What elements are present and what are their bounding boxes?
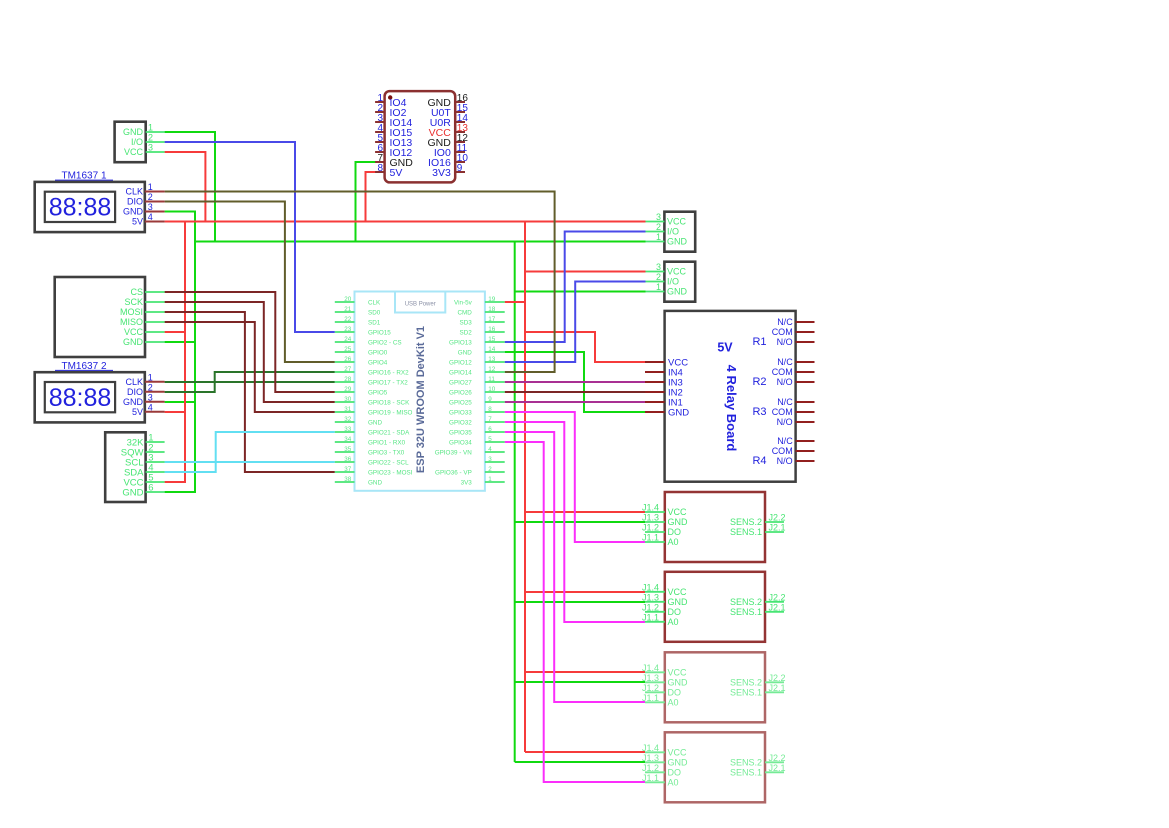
wire ESP GPIO34 pin5 to SENS4.A0 — [505, 442, 645, 782]
svg-text:MISO: MISO — [120, 317, 143, 327]
svg-text:1: 1 — [148, 123, 153, 133]
svg-text:J1.3: J1.3 — [642, 753, 659, 763]
wire TM1637_1.DIO to ESP GPIO4 pin26 — [165, 202, 335, 363]
svg-text:7: 7 — [488, 416, 492, 423]
svg-text:A0: A0 — [668, 778, 679, 788]
wire 5V U1 pin8 to bus — [366, 172, 376, 222]
svg-text:I/O: I/O — [131, 137, 143, 147]
svg-text:COM: COM — [772, 446, 793, 456]
svg-text:9: 9 — [457, 163, 463, 174]
svg-text:VCC: VCC — [668, 587, 688, 597]
svg-text:SENS.2: SENS.2 — [730, 517, 762, 527]
svg-text:5: 5 — [488, 436, 492, 443]
svg-text:J1.1: J1.1 — [642, 693, 659, 703]
svg-text:8: 8 — [377, 163, 383, 174]
svg-text:16: 16 — [488, 326, 496, 333]
svg-text:SENS.2: SENS.2 — [730, 678, 762, 688]
svg-text:J1.4: J1.4 — [642, 743, 659, 753]
svg-text:33: 33 — [344, 426, 352, 433]
svg-text:R4: R4 — [752, 455, 766, 467]
svg-text:CMD: CMD — [457, 309, 472, 316]
svg-text:13: 13 — [488, 356, 496, 363]
svg-text:GPIO32: GPIO32 — [449, 419, 472, 426]
svg-text:CLK: CLK — [368, 299, 381, 306]
wire GND vertical rail x195 — [194, 211, 196, 493]
svg-text:J1.4: J1.4 — [642, 503, 659, 513]
svg-text:GND: GND — [668, 758, 689, 768]
svg-text:18: 18 — [488, 306, 496, 313]
svg-text:VCC: VCC — [668, 748, 688, 758]
wire 5V ESP Vin-5v pin19 — [505, 301, 525, 303]
svg-text:J2.2: J2.2 — [769, 753, 786, 763]
svg-text:GND: GND — [122, 487, 143, 498]
svg-text:SENS.2: SENS.2 — [730, 597, 762, 607]
svg-text:19: 19 — [488, 296, 496, 303]
relay board K1 — [645, 311, 815, 482]
wire ESP GPIO13 pin15 to J1.I/O — [505, 232, 646, 343]
wire GND branch to SENS4.GND — [515, 761, 645, 763]
svg-text:24: 24 — [344, 336, 352, 343]
wire GND SPI.GND to rail — [165, 341, 196, 343]
wire 5V J3.VCC down to bus — [165, 152, 206, 222]
wire GND horizontal bus y241 to J1.GND — [194, 241, 646, 243]
svg-text:12: 12 — [488, 366, 496, 373]
svg-text:27: 27 — [344, 366, 352, 373]
svg-text:R2: R2 — [752, 376, 766, 388]
svg-text:3: 3 — [148, 202, 153, 212]
wire 5V branch to SENS2.VCC — [525, 591, 645, 593]
svg-text:5V: 5V — [717, 340, 733, 354]
svg-text:GPIO16 - RX2: GPIO16 - RX2 — [368, 369, 409, 376]
wire GND branch to SENS3.GND — [515, 681, 645, 683]
wire ESP GPIO27 pin11 to relay IN3 — [505, 381, 645, 383]
svg-text:J1.1: J1.1 — [642, 533, 659, 543]
svg-text:MOSI: MOSI — [120, 307, 143, 317]
svg-text:2: 2 — [656, 222, 661, 232]
svg-text:A0: A0 — [668, 698, 679, 708]
wire SPI.CS to ESP GPIO5 pin29 — [165, 292, 335, 392]
svg-text:3V3: 3V3 — [461, 479, 473, 486]
svg-text:GND: GND — [368, 419, 382, 426]
svg-text:DO: DO — [668, 768, 682, 778]
svg-text:GPIO22 - SCL: GPIO22 - SCL — [368, 459, 409, 466]
svg-text:DIO: DIO — [127, 387, 143, 397]
svg-text:DIO: DIO — [127, 197, 143, 207]
svg-text:GPIO23 - MOSI: GPIO23 - MOSI — [368, 469, 413, 476]
wire 5V SPI.VCC to rail — [165, 331, 186, 333]
svg-text:N/O: N/O — [777, 337, 793, 347]
svg-text:VCC: VCC — [668, 507, 688, 517]
svg-text:R1: R1 — [752, 336, 766, 348]
wire 5V bus TM1637_1.5V to J1.VCC — [165, 221, 646, 223]
svg-text:29: 29 — [344, 386, 352, 393]
wire GND bus TM1637_1.GND to rail — [165, 211, 196, 213]
svg-text:N/O: N/O — [777, 456, 793, 466]
wire SPI.MISO to ESP GPIO19-MISO pin31 — [165, 322, 335, 412]
svg-text:4: 4 — [488, 446, 492, 453]
svg-text:21: 21 — [344, 306, 352, 313]
svg-text:4 Relay Board: 4 Relay Board — [724, 365, 739, 452]
display TM1637 1 — [35, 171, 165, 232]
svg-text:23: 23 — [344, 326, 352, 333]
svg-text:SENS.1: SENS.1 — [730, 527, 762, 537]
svg-text:J2.1: J2.1 — [769, 763, 786, 773]
sensor board SENS4 — [642, 732, 786, 802]
wire ESP GPIO33 pin8 to SENS1.A0 — [505, 412, 645, 542]
svg-text:N/C: N/C — [777, 357, 793, 367]
svg-text:GND: GND — [123, 397, 144, 407]
svg-text:3: 3 — [656, 262, 661, 272]
svg-text:J2.1: J2.1 — [769, 683, 786, 693]
wire 5V TM1637_2.5V to rail — [165, 411, 186, 413]
svg-text:1: 1 — [148, 182, 153, 192]
svg-text:6: 6 — [488, 426, 492, 433]
svg-text:VCC: VCC — [124, 147, 144, 157]
wire GND branch to J2.GND — [515, 291, 646, 293]
svg-text:11: 11 — [488, 376, 495, 383]
wire ESP GPIO12 pin13 to J2.I/O — [505, 282, 646, 363]
svg-text:GPIO26: GPIO26 — [449, 389, 472, 396]
svg-text:GPIO2 - CS: GPIO2 - CS — [368, 339, 402, 346]
connector J1 — [646, 212, 696, 252]
svg-text:N/C: N/C — [777, 436, 793, 446]
chip U1 — [375, 91, 468, 182]
svg-text:SENS.1: SENS.1 — [730, 768, 762, 778]
module RTC U3 — [105, 432, 164, 502]
wire GND branch to SENS2.GND — [515, 601, 645, 603]
wire GND ESP.GND pin14 to relay GND — [505, 352, 645, 412]
svg-text:3: 3 — [656, 212, 661, 222]
svg-text:GPIO39 - VN: GPIO39 - VN — [435, 449, 473, 456]
svg-text:USB Power: USB Power — [405, 301, 436, 307]
svg-text:J2.1: J2.1 — [769, 523, 786, 533]
svg-text:3V3: 3V3 — [432, 167, 451, 179]
svg-text:3: 3 — [148, 143, 153, 153]
svg-text:J1.2: J1.2 — [642, 763, 659, 773]
wire RTC.SCL to ESP GPIO22-SCL pin36 — [165, 461, 335, 463]
svg-text:GPIO34: GPIO34 — [449, 439, 472, 446]
svg-text:31: 31 — [344, 406, 352, 413]
svg-text:2: 2 — [488, 466, 492, 473]
wire RTC.SDA to ESP GPIO21-SDA pin33 — [165, 432, 335, 472]
connector J3 — [115, 122, 165, 163]
svg-text:88:88: 88:88 — [49, 194, 112, 222]
svg-text:GND: GND — [368, 479, 382, 486]
svg-text:VCC: VCC — [668, 668, 688, 678]
svg-text:GND: GND — [123, 127, 144, 137]
mcu ESP 32U WROOM DevKit V1 — [335, 292, 505, 491]
sensor board SENS1 — [642, 492, 786, 562]
svg-text:GPIO36 - VP: GPIO36 - VP — [435, 469, 472, 476]
svg-text:GND: GND — [668, 678, 689, 688]
svg-text:3: 3 — [488, 456, 492, 463]
svg-text:COM: COM — [772, 407, 793, 417]
svg-text:20: 20 — [344, 296, 352, 303]
svg-text:GND: GND — [668, 517, 689, 527]
svg-text:GPIO5: GPIO5 — [368, 389, 388, 396]
svg-text:SD1: SD1 — [368, 319, 381, 326]
wire 5V vertical rail x525 to sensors — [524, 222, 526, 753]
svg-text:A0: A0 — [668, 537, 679, 547]
svg-text:J1.3: J1.3 — [642, 673, 659, 683]
svg-text:GPIO12: GPIO12 — [449, 359, 472, 366]
svg-text:30: 30 — [344, 396, 352, 403]
svg-text:SENS.1: SENS.1 — [730, 688, 762, 698]
svg-text:GPIO21 - SDA: GPIO21 - SDA — [368, 429, 410, 436]
svg-text:J1.3: J1.3 — [642, 592, 659, 602]
wire GND U1 pin7 to bus — [356, 162, 376, 242]
svg-text:1: 1 — [488, 476, 492, 483]
wire TM1637_2.CLK to ESP GPIO17-TX2 pin28 — [165, 381, 335, 383]
wire SPI.MOSI to ESP GPIO23-MOSI pin37 — [165, 312, 335, 472]
svg-text:SCK: SCK — [124, 297, 143, 307]
wire ESP GPIO26 pin10 to relay IN2 — [505, 391, 645, 393]
svg-text:J2.2: J2.2 — [769, 673, 786, 683]
svg-text:CLK: CLK — [125, 377, 143, 387]
svg-text:GPIO25: GPIO25 — [449, 399, 472, 406]
wire ESP GPIO32 pin7 to SENS2.A0 — [505, 422, 645, 622]
svg-text:J1.1: J1.1 — [642, 612, 659, 622]
svg-text:26: 26 — [344, 356, 352, 363]
svg-text:4: 4 — [148, 212, 153, 222]
svg-text:2: 2 — [148, 133, 153, 143]
svg-text:3: 3 — [148, 392, 153, 402]
wire 5V RTC.VCC to rail — [165, 481, 186, 483]
svg-text:VCC: VCC — [124, 327, 144, 337]
svg-text:COM: COM — [772, 367, 793, 377]
svg-text:VCC: VCC — [667, 267, 687, 277]
svg-text:J1.2: J1.2 — [642, 523, 659, 533]
svg-text:22: 22 — [344, 316, 352, 323]
svg-text:GPIO27: GPIO27 — [449, 379, 472, 386]
wire 5V vertical rail x185 — [184, 221, 186, 483]
svg-text:37: 37 — [344, 466, 352, 473]
svg-text:2: 2 — [148, 382, 153, 392]
svg-text:2: 2 — [656, 272, 661, 282]
svg-text:GPIO14: GPIO14 — [449, 369, 472, 376]
svg-text:I/O: I/O — [667, 227, 679, 237]
wire ESP GPIO35 pin6 to SENS3.A0 — [505, 432, 645, 702]
svg-text:GPIO1 - RX0: GPIO1 - RX0 — [368, 439, 406, 446]
wire GND vertical rail x514.7 to sensors — [514, 242, 516, 763]
svg-text:J1.3: J1.3 — [642, 513, 659, 523]
svg-text:35: 35 — [344, 446, 352, 453]
svg-text:R3: R3 — [752, 406, 766, 418]
display TM1637 2 — [35, 361, 165, 423]
svg-text:CS: CS — [130, 287, 143, 297]
svg-text:SD2: SD2 — [460, 329, 473, 336]
svg-text:GND: GND — [667, 237, 688, 247]
svg-text:1: 1 — [656, 282, 661, 292]
svg-text:5V: 5V — [132, 217, 143, 227]
wire 5V branch to relay VCC — [525, 332, 645, 362]
wire GND RTC.GND to rail — [165, 491, 196, 493]
svg-text:J2.1: J2.1 — [769, 602, 786, 612]
svg-text:9: 9 — [488, 396, 492, 403]
svg-text:GPIO0: GPIO0 — [368, 349, 388, 356]
svg-text:32: 32 — [344, 416, 352, 423]
svg-text:GPIO18 - SCK: GPIO18 - SCK — [368, 399, 410, 406]
sensor board SENS2 — [642, 572, 786, 642]
svg-text:GPIO3 - TX0: GPIO3 - TX0 — [368, 449, 405, 456]
svg-text:DO: DO — [668, 688, 682, 698]
svg-text:GPIO4: GPIO4 — [368, 359, 388, 366]
svg-text:J2.2: J2.2 — [769, 592, 786, 602]
svg-text:14: 14 — [488, 346, 496, 353]
svg-text:J1.4: J1.4 — [642, 663, 659, 673]
svg-text:10: 10 — [488, 386, 496, 393]
svg-text:34: 34 — [344, 436, 352, 443]
svg-text:8: 8 — [488, 406, 492, 413]
svg-text:GND: GND — [123, 337, 144, 347]
wire 5V branch to SENS4.VCC — [525, 751, 645, 753]
svg-text:SENS.2: SENS.2 — [730, 758, 762, 768]
svg-text:5V: 5V — [132, 407, 143, 417]
svg-text:J2.2: J2.2 — [769, 513, 786, 523]
svg-text:GPIO17 - TX2: GPIO17 - TX2 — [368, 379, 408, 386]
svg-text:2: 2 — [148, 192, 153, 202]
svg-text:GND: GND — [123, 207, 144, 217]
svg-text:4: 4 — [148, 402, 153, 412]
svg-text:SD3: SD3 — [460, 319, 473, 326]
svg-text:5V: 5V — [390, 167, 403, 179]
svg-text:ESP 32U WROOM DevKit V1: ESP 32U WROOM DevKit V1 — [415, 326, 427, 473]
wire GND TM1637_2.GND to rail — [165, 401, 196, 403]
wire GND branch to SENS1.GND — [515, 521, 645, 523]
svg-text:GND: GND — [668, 407, 689, 418]
svg-text:GPIO13: GPIO13 — [449, 339, 472, 346]
svg-text:28: 28 — [344, 376, 352, 383]
svg-text:17: 17 — [488, 316, 496, 323]
wire GND J3.GND down to bus — [165, 132, 215, 242]
svg-text:GND: GND — [667, 287, 688, 297]
svg-text:DO: DO — [668, 607, 682, 617]
svg-text:N/O: N/O — [777, 417, 793, 427]
svg-text:GND: GND — [668, 597, 689, 607]
svg-text:GPIO33: GPIO33 — [449, 409, 472, 416]
svg-text:A0: A0 — [668, 617, 679, 627]
svg-text:GND: GND — [458, 349, 472, 356]
svg-text:DO: DO — [668, 527, 682, 537]
svg-text:GPIO19 - MISO: GPIO19 - MISO — [368, 409, 413, 416]
svg-text:VCC: VCC — [667, 217, 687, 227]
svg-text:J1.4: J1.4 — [642, 582, 659, 592]
wire 5V branch to SENS3.VCC — [525, 671, 645, 673]
svg-text:38: 38 — [344, 476, 352, 483]
svg-text:N/O: N/O — [777, 377, 793, 387]
svg-text:J1.1: J1.1 — [642, 773, 659, 783]
svg-text:15: 15 — [488, 336, 496, 343]
wire J3.I/O to ESP GPIO15 pin23 — [165, 142, 335, 332]
svg-text:SENS.1: SENS.1 — [730, 607, 762, 617]
svg-text:36: 36 — [344, 456, 352, 463]
svg-text:88:88: 88:88 — [49, 384, 112, 412]
wire TM1637_1.CLK to ESP GPIO14 pin12 — [165, 192, 555, 373]
svg-text:1: 1 — [656, 232, 661, 242]
svg-text:GPIO15: GPIO15 — [368, 329, 391, 336]
sensor board SENS3 — [642, 652, 786, 722]
svg-text:CLK: CLK — [125, 187, 143, 197]
svg-text:25: 25 — [344, 346, 352, 353]
svg-text:6: 6 — [148, 483, 153, 494]
wire SPI.SCK to ESP GPIO18-SCK pin30 — [165, 302, 335, 402]
svg-text:1: 1 — [148, 372, 153, 382]
svg-text:J1.2: J1.2 — [642, 683, 659, 693]
svg-text:SD0: SD0 — [368, 309, 381, 316]
module SPI SD card U2 — [55, 277, 165, 357]
svg-text:N/C: N/C — [777, 397, 793, 407]
svg-text:I/O: I/O — [667, 277, 679, 287]
wire 5V branch to J2.VCC — [525, 271, 646, 273]
wire TM1637_2.DIO to ESP GPIO16-RX2 pin27 — [165, 372, 335, 392]
svg-text:N/C: N/C — [777, 317, 793, 327]
wire ESP GPIO25 pin9 to relay IN1 — [505, 401, 645, 403]
connector J2 — [646, 262, 696, 302]
svg-text:J1.2: J1.2 — [642, 602, 659, 612]
wire 5V branch to SENS1.VCC — [525, 511, 645, 513]
svg-text:Vin-5v: Vin-5v — [454, 299, 473, 306]
svg-text:GPIO35: GPIO35 — [449, 429, 472, 436]
svg-text:COM: COM — [772, 327, 793, 337]
